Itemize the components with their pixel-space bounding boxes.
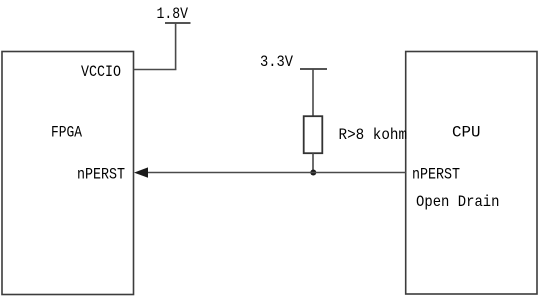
- wire resistor bottom to nPERST net: [312, 153, 314, 172]
- wire 3.3V to resistor top: [312, 69, 314, 116]
- svg-text:3.3V: 3.3V: [260, 53, 293, 71]
- FPGA block: [2, 52, 134, 295]
- svg-text:nPERST: nPERST: [412, 165, 460, 183]
- wire 1.8V vertical drop: [175, 23, 177, 70]
- svg-text:VCCIO: VCCIO: [81, 63, 121, 81]
- svg-text:R>8 kohm: R>8 kohm: [339, 126, 408, 144]
- power rail bar 1.8V: [165, 22, 191, 24]
- junction dot node: [310, 170, 316, 176]
- svg-text:1.8V: 1.8V: [157, 5, 189, 23]
- svg-text:FPGA: FPGA: [51, 124, 82, 142]
- svg-text:nPERST: nPERST: [77, 166, 125, 184]
- svg-text:Open Drain: Open Drain: [416, 193, 500, 211]
- wire VCCIO horizontal: [134, 69, 177, 71]
- CPU block: [406, 52, 537, 295]
- svg-text:CPU: CPU: [452, 123, 481, 141]
- arrowhead into FPGA: [134, 167, 148, 177]
- power rail bar 3.3V: [300, 68, 327, 70]
- wire nPERST net horizontal: [145, 172, 406, 174]
- resistor R>8 kohm body: [304, 116, 323, 153]
